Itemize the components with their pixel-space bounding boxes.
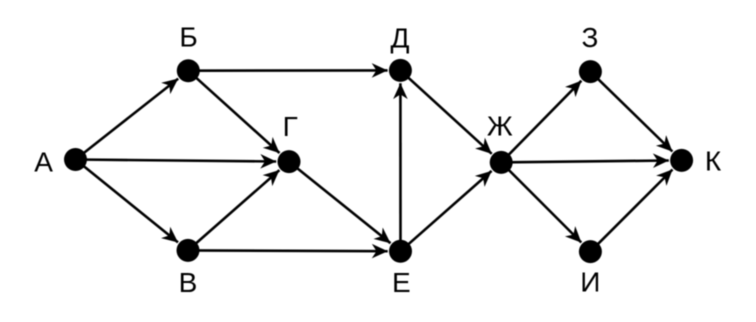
svg-text:А: А bbox=[34, 147, 53, 178]
node E (Е) bbox=[389, 240, 412, 263]
wire V to E bbox=[188, 249, 388, 252]
node V (В) bbox=[177, 239, 200, 262]
node Zh (Ж) bbox=[490, 151, 513, 174]
node I (И) bbox=[579, 240, 602, 263]
wire V to G bbox=[188, 170, 279, 250]
node A bbox=[64, 148, 87, 171]
node B (Б) bbox=[177, 59, 200, 82]
node G (Г) bbox=[278, 150, 301, 173]
node D (Д) bbox=[389, 59, 412, 82]
svg-text:Е: Е bbox=[392, 267, 411, 298]
wire Z to K bbox=[590, 72, 672, 152]
svg-text:Г: Г bbox=[283, 111, 298, 142]
wire A to G bbox=[76, 160, 277, 162]
wire Zh to Z bbox=[501, 81, 581, 163]
wire E to Zh bbox=[401, 171, 492, 251]
wire B to D bbox=[188, 69, 387, 72]
svg-text:З: З bbox=[582, 22, 599, 53]
wire A to V bbox=[76, 160, 179, 243]
wire I to K bbox=[590, 170, 672, 252]
node K (К) bbox=[670, 149, 693, 172]
svg-text:Б: Б bbox=[179, 22, 197, 53]
wire B to G bbox=[188, 71, 279, 153]
svg-text:Ж: Ж bbox=[487, 110, 513, 141]
svg-text:Д: Д bbox=[391, 22, 410, 53]
wire E to D bbox=[399, 83, 402, 251]
node Z (З) bbox=[579, 60, 602, 83]
wire Zh to I bbox=[501, 162, 581, 242]
svg-text:К: К bbox=[705, 145, 722, 176]
wire G to E bbox=[289, 162, 391, 244]
wire Zh to K bbox=[501, 161, 669, 163]
svg-text:В: В bbox=[179, 267, 198, 298]
wire D to Zh bbox=[400, 70, 491, 153]
svg-text:И: И bbox=[580, 267, 600, 298]
wire A to B bbox=[76, 79, 179, 160]
